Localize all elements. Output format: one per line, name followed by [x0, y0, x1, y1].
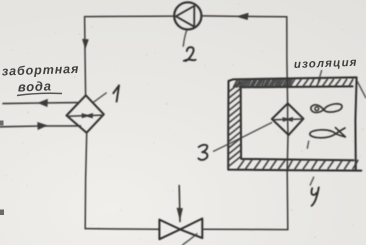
svg-text:вода: вода	[18, 78, 52, 94]
hatching left band	[229, 83, 241, 93]
arrow seawater in	[38, 122, 48, 129]
wire top-right segment (right riser to pump inlet)	[202, 15, 287, 18]
hatching bottom band	[238, 160, 244, 168]
label 4	[311, 187, 318, 205]
pump P1 triangle (flow to left)	[176, 6, 194, 27]
label 1	[113, 85, 119, 101]
heat exchanger 3 internal arrows	[274, 118, 303, 121]
leader to label 3	[214, 123, 272, 152]
wire left riser upper (corner down to heat exchanger 1)	[85, 17, 86, 95]
heat exchanger 1 diamond	[67, 95, 104, 132]
leader to label 1	[93, 93, 106, 103]
svg-text:изоляция: изоляция	[294, 57, 358, 71]
svg-text:забортная: забортная	[2, 62, 80, 79]
expansion valve V1 (bowtie)	[159, 220, 180, 240]
label 3	[198, 145, 207, 160]
wire top-left segment (pump outlet to corner)	[85, 15, 175, 18]
wire right riser (bottom corner up through box to top wire)	[287, 17, 288, 230]
tick leader below fan	[307, 141, 308, 148]
paper speckle noise	[233, 7, 234, 8]
seawater outlet pipe (to left, with arrow)	[3, 103, 79, 104]
arrow seawater out	[38, 99, 47, 106]
seawater inlet pipe (from left, with arrow)	[0, 125, 81, 128]
label 2	[184, 47, 196, 61]
underline under вода	[17, 93, 62, 95]
wire bottom-left segment	[85, 228, 159, 231]
arrow flow-down on left riser	[83, 39, 89, 48]
scan artifact left edge lower	[0, 210, 4, 216]
insulated box outer outline	[228, 77, 361, 170]
leader below valve	[183, 234, 198, 245]
leader from insulation label	[318, 71, 321, 82]
pump P1 circle	[174, 2, 201, 29]
wire bottom-right segment	[202, 228, 287, 230]
heat exchanger 1 internal arrows	[68, 115, 103, 116]
fan front view (propeller loops)	[311, 104, 342, 113]
valve stem with down arrow	[178, 186, 181, 222]
fan side view (blade)	[310, 128, 346, 138]
leader to label 2	[183, 30, 187, 46]
wire left riser lower (heat exchanger 1 to bottom corner)	[85, 133, 87, 228]
insulated box stray corner stroke	[357, 82, 365, 98]
arrow flow-left on top wire	[237, 13, 248, 19]
tick leader above label 4	[310, 177, 314, 185]
hatching top band	[234, 80, 238, 87]
heat exchanger 3 diamond	[272, 103, 304, 135]
insulated box inner outline	[241, 86, 354, 160]
scan artifact left edge mid	[0, 121, 4, 126]
